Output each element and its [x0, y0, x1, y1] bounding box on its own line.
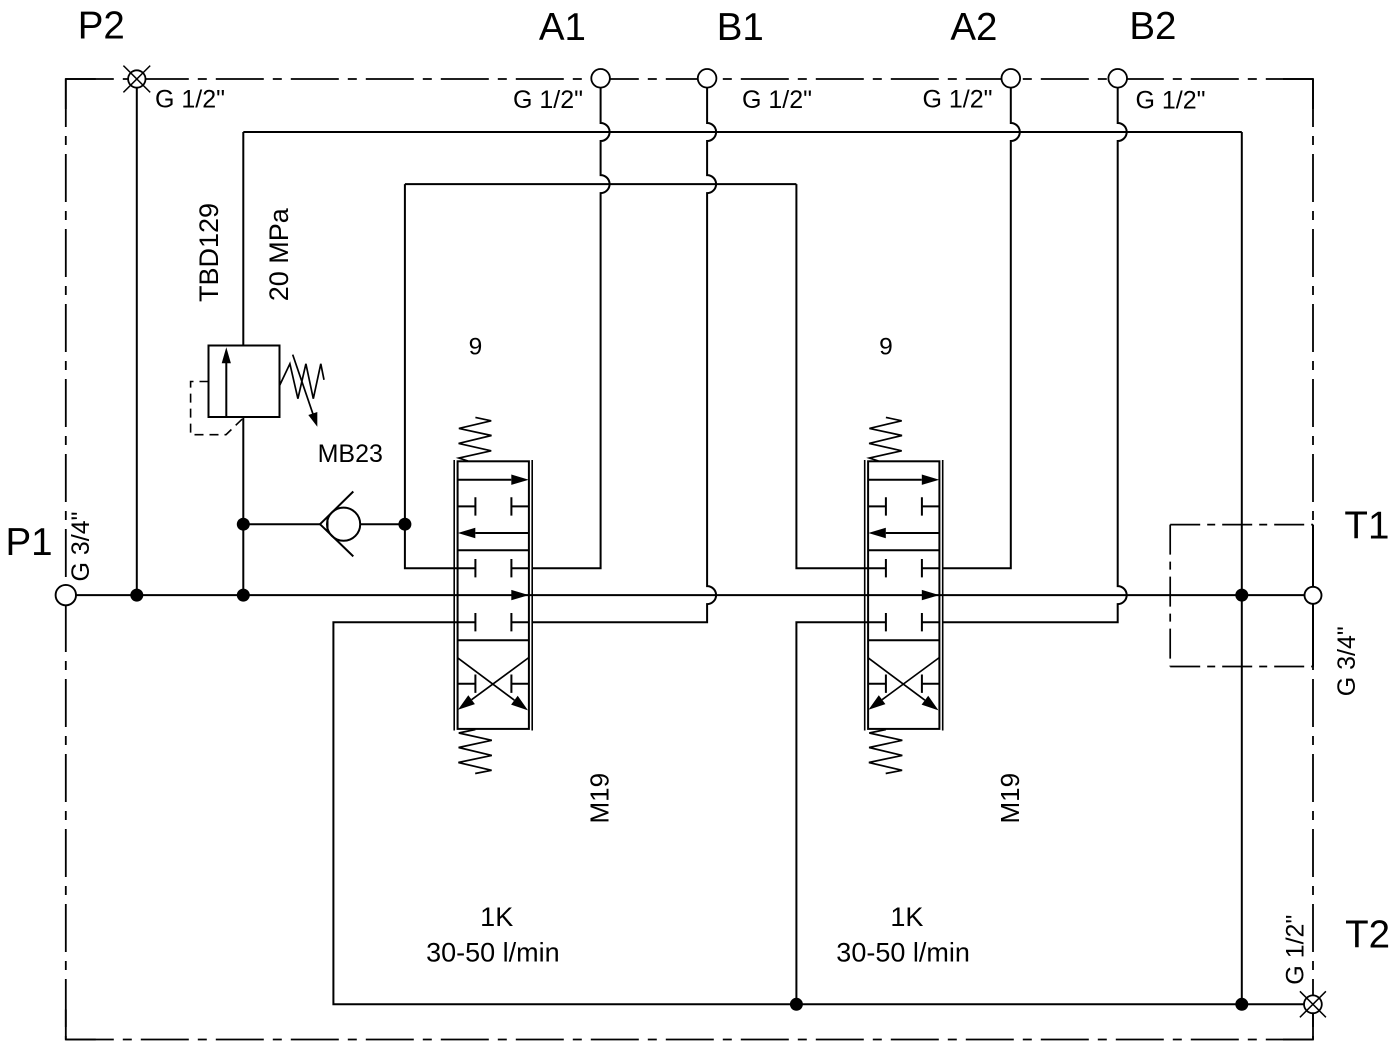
svg-text:A1: A1	[539, 6, 586, 49]
port T2 (plugged)	[1300, 991, 1326, 1017]
svg-text:30-50 l/min: 30-50 l/min	[426, 938, 560, 968]
wire valve 2 tank return	[796, 622, 868, 1004]
svg-text:G 1/2": G 1/2"	[922, 86, 992, 114]
valve V1 neutral position: blocked ports (upper)	[458, 559, 529, 577]
svg-text:P1: P1	[5, 521, 52, 564]
svg-text:20 MPa: 20 MPa	[264, 207, 294, 301]
valve V1 bottom centering spring	[458, 730, 491, 774]
directional control valve V1 body	[458, 461, 529, 729]
port B1	[698, 69, 717, 88]
wire P1-T1 main line	[76, 594, 1305, 596]
check valve MB23 seat	[320, 492, 353, 557]
svg-text:B2: B2	[1129, 5, 1176, 48]
valve V2 position b: crossover arrows	[868, 658, 939, 711]
svg-text:G 3/4": G 3/4"	[1333, 626, 1361, 696]
wire feed drop to valve 1	[405, 184, 458, 568]
svg-text:M19: M19	[995, 773, 1025, 824]
valve V1 position b: crossover arrows	[458, 658, 529, 711]
wire tank right drop	[1241, 132, 1243, 1004]
valve V2 position b: blocked ports	[868, 675, 939, 693]
svg-text:G 1/2": G 1/2"	[1281, 915, 1309, 985]
wire valve 1 tank return	[333, 622, 1304, 1004]
port P1	[56, 585, 76, 605]
valve V1 position b: blocked ports	[458, 675, 529, 693]
wire check valve branch	[243, 523, 405, 525]
valve V1 neutral position: open center arrow	[511, 590, 529, 600]
port A1	[591, 69, 610, 88]
svg-text:G 3/4": G 3/4"	[67, 511, 95, 581]
wire P2 drop line	[136, 88, 138, 595]
wire tank header (top)	[243, 131, 1242, 133]
port B2	[1108, 69, 1127, 88]
valve V2 position a: arrow P to A	[868, 475, 939, 485]
svg-text:B1: B1	[717, 6, 764, 49]
valve V2 bottom centering spring	[869, 730, 902, 774]
svg-text:M19: M19	[585, 773, 615, 824]
wire B2 drop line (with hops)	[943, 88, 1127, 623]
relief valve pilot line (dashed)	[191, 382, 244, 435]
wire relief valve outlet (lower)	[242, 417, 244, 595]
T1 port box right edge (solid)	[1312, 525, 1314, 667]
valve V1 top centering spring	[459, 417, 492, 461]
valve V1 neutral position: blocked ports (lower)	[458, 613, 529, 631]
svg-text:G 1/2": G 1/2"	[513, 86, 583, 114]
valve V1 position a: arrow B to T	[458, 528, 529, 538]
valve V2 neutral position: blocked ports (upper)	[868, 559, 939, 577]
port P2 (plugged)	[123, 66, 150, 93]
svg-text:P2: P2	[78, 5, 125, 48]
svg-text:G 1/2": G 1/2"	[742, 86, 812, 114]
wire feed drop to valve 2	[796, 184, 868, 568]
svg-text:1K: 1K	[890, 902, 923, 932]
svg-text:TBD129: TBD129	[194, 203, 224, 302]
valve V2 position a: arrow B to T	[868, 528, 939, 538]
svg-text:9: 9	[469, 334, 483, 361]
wire relief valve riser (upper)	[242, 132, 244, 346]
directional control valve V1 sleeve lines	[454, 460, 532, 731]
relief valve TBD129 body	[209, 346, 280, 418]
svg-text:T1: T1	[1344, 504, 1389, 547]
valve V2 top centering spring	[869, 417, 902, 461]
directional control valve V2 body	[868, 461, 939, 729]
wire B1 drop line (with hops)	[532, 88, 716, 623]
svg-text:G 1/2": G 1/2"	[1136, 86, 1206, 114]
svg-text:A2: A2	[950, 6, 997, 49]
check valve MB23 ball	[327, 508, 360, 541]
valve V2 neutral position: open center arrow	[922, 590, 940, 600]
svg-text:1K: 1K	[480, 902, 513, 932]
wire A1 drop line (with hops)	[532, 88, 609, 569]
valve V2 position a: blocked ports	[868, 497, 939, 515]
T1 port box (dash-dot)	[1170, 525, 1313, 667]
valve V1 position a: arrow P to A	[458, 475, 529, 485]
wire A2 drop line (with hop)	[943, 88, 1020, 569]
directional control valve V2 sleeve lines	[865, 460, 943, 731]
svg-text:9: 9	[879, 334, 893, 361]
wire feed header	[405, 183, 797, 185]
valve V1 position a: blocked ports	[458, 497, 529, 515]
relief valve flow arrow	[222, 347, 231, 416]
svg-text:MB23: MB23	[318, 440, 383, 468]
port A2	[1002, 69, 1021, 88]
relief valve adjustment arrow	[293, 355, 318, 427]
port T1	[1305, 587, 1322, 604]
valve V2 neutral position: blocked ports (lower)	[868, 613, 939, 631]
svg-text:G 1/2": G 1/2"	[155, 85, 225, 113]
svg-text:30-50 l/min: 30-50 l/min	[836, 938, 970, 968]
relief valve spring	[279, 364, 324, 399]
svg-text:T2: T2	[1345, 914, 1390, 957]
